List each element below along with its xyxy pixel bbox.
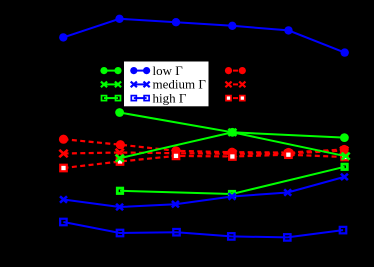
svg-text:high Γ: high Γ — [153, 90, 187, 105]
svg-text:low Γ: low Γ — [153, 63, 184, 78]
